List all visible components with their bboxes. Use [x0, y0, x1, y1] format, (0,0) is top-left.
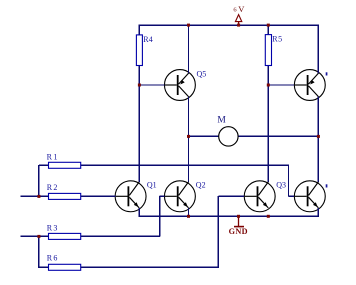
transistor Q4 internals: [295, 182, 319, 208]
junction R5 top on +V rail: [267, 24, 270, 27]
junction node B (R3/R6 input): [37, 235, 40, 238]
transistor Q1 internals: [116, 182, 140, 208]
wire rail to R4 top: [138, 25, 140, 35]
wire Q3 base: [218, 195, 244, 197]
wire input stub B: [20, 235, 48, 237]
transistor Q3 internals: [245, 182, 269, 208]
wire node A up to R1: [38, 165, 40, 196]
wire R2 right to Q1 base: [81, 195, 116, 197]
svg-text:Q3: Q3: [276, 181, 286, 190]
junction Q5 base / R4 / Q1 collector: [138, 84, 141, 87]
svg-text:R1: R1: [47, 153, 60, 162]
wire ground rail: [139, 215, 318, 217]
wire R6 right: [81, 266, 219, 268]
transistor Q5 circle: [164, 70, 195, 101]
ground GND symbol: [234, 216, 244, 226]
transistor Q2 internals: [165, 182, 189, 208]
wire Q1 emitter to ground rail: [138, 208, 140, 217]
svg-text:Q2: Q2: [196, 181, 206, 190]
wire up to Q3 base: [217, 196, 219, 268]
wire Q2 emitter to ground rail: [188, 208, 190, 217]
wire input stub A: [20, 195, 48, 197]
resistor R4 body: [136, 35, 142, 66]
svg-text:Q5: Q5: [197, 70, 207, 79]
wire top rail +V: [139, 24, 318, 26]
label tick Q4: [326, 184, 328, 187]
wire Q6 base: [268, 84, 294, 86]
svg-text:6: 6: [233, 7, 237, 14]
junction node A (R1/R2 input): [37, 195, 40, 198]
svg-text:GND: GND: [229, 227, 248, 236]
transistor Q1 circle: [115, 181, 146, 212]
junction motor left node: [187, 135, 190, 138]
wire Q4 collector stub: [317, 136, 319, 182]
wire R1 left: [39, 164, 49, 166]
svg-text:R6: R6: [47, 253, 59, 262]
transistor Q6 internals: [295, 73, 319, 96]
transistor Q6 circle: [294, 70, 325, 101]
transistor Q3 circle: [244, 181, 275, 212]
label tick Q6: [326, 72, 328, 75]
svg-text:R2: R2: [47, 183, 59, 192]
motor M circle: [219, 127, 238, 146]
wire R1 right to Q4 base column: [81, 164, 290, 166]
wire R5 top link: [267, 25, 269, 35]
wire down to Q4 base: [288, 165, 290, 196]
junction GND on ground rail: [237, 215, 240, 218]
svg-text:R4: R4: [143, 35, 153, 44]
wire Q4 base: [289, 195, 295, 197]
wire rail to Q6 collector: [317, 25, 319, 74]
transistor Q5 internals: [165, 73, 189, 96]
svg-text:R3: R3: [47, 223, 59, 232]
wire Q5 base: [139, 84, 164, 86]
transistor Q2 circle: [164, 181, 195, 212]
svg-text:R5: R5: [272, 35, 283, 44]
wire R3 right: [81, 235, 161, 237]
svg-text:Q1: Q1: [147, 181, 157, 190]
power port +V symbol: [235, 15, 241, 26]
resistor R3 body: [49, 233, 81, 239]
wire Q2 base: [160, 195, 165, 197]
junction Q2 emitter on ground rail: [187, 215, 190, 218]
wire Q2 collector stub: [188, 136, 190, 182]
wire Q5 collector stub: [188, 25, 190, 73]
wire R5 bottom to Q3 collector: [267, 65, 269, 182]
wire motor node left-right: [189, 135, 319, 137]
junction +V power on rail: [237, 24, 240, 27]
wire Q4 emitter to ground rail: [317, 208, 319, 217]
wire node B down to R6: [38, 236, 40, 268]
svg-text:M: M: [217, 116, 226, 126]
junction Q5 collector on +V rail: [187, 24, 190, 27]
wire R6 left: [39, 266, 49, 268]
wire Q5 emitter to motor node: [188, 97, 190, 137]
transistor Q4 circle: [294, 181, 325, 212]
wire Q6 emitter to motor node: [317, 97, 319, 137]
junction Q6 base / R5 / Q3 collector: [267, 84, 270, 87]
svg-text:V: V: [238, 4, 245, 14]
junction motor right node: [317, 135, 320, 138]
wire up to Q2 base: [159, 196, 161, 236]
resistor R5 body: [265, 35, 271, 66]
resistor R2 body: [49, 193, 81, 199]
wire R4 bottom to Q1 collector: [138, 65, 140, 182]
resistor R6 body: [49, 264, 81, 270]
junction Q3 emitter on ground rail: [267, 215, 270, 218]
resistor R1 body: [49, 162, 81, 168]
